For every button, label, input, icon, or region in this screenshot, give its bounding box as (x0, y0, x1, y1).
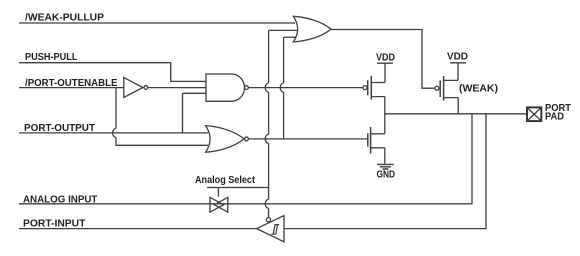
svg-text:PORT-OUTPUT: PORT-OUTPUT (24, 123, 95, 134)
svg-text:ANALOG INPUT: ANALOG INPUT (23, 195, 97, 206)
svg-text:PORT-INPUT: PORT-INPUT (23, 219, 85, 230)
svg-text:PUSH-PULL: PUSH-PULL (25, 52, 78, 63)
svg-text:VDD: VDD (376, 53, 395, 64)
svg-text:/WEAK-PULLUP: /WEAK-PULLUP (25, 13, 104, 24)
svg-text:PAD: PAD (545, 111, 564, 122)
svg-text:(WEAK): (WEAK) (459, 84, 498, 95)
svg-text:VDD: VDD (447, 52, 468, 63)
svg-text:Analog Select: Analog Select (195, 175, 256, 186)
svg-text:/PORT-OUTENABLE: /PORT-OUTENABLE (25, 78, 118, 89)
svg-text:GND: GND (377, 169, 396, 180)
